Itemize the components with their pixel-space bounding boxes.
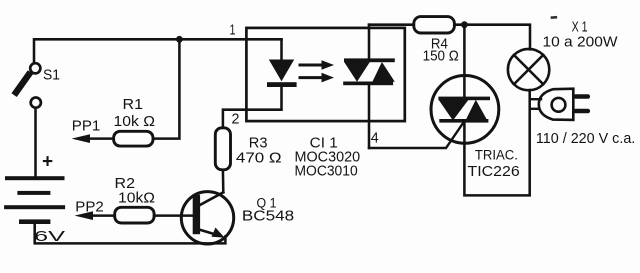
svg-text:MOC3010: MOC3010 bbox=[295, 163, 358, 179]
lamp X1 bbox=[508, 49, 549, 90]
node junction dot at triac MT2 bbox=[461, 21, 468, 28]
light arrows bbox=[300, 60, 334, 82]
wire: triac MT1 to plug return bbox=[464, 90, 529, 195]
wire: top rail from switch to LED anode bbox=[34, 39, 282, 63]
wire + arrow PP1 bbox=[72, 134, 114, 143]
svg-text:10kΩ: 10kΩ bbox=[118, 191, 155, 207]
wire: switch to battery bbox=[34, 108, 37, 176]
wire: pin2 of opto to R3 bbox=[223, 87, 282, 128]
svg-text:2: 2 bbox=[232, 111, 240, 127]
wire: junction down to triac bbox=[463, 25, 466, 97]
wire: battery to bottom rail and to Q1 emitter bbox=[35, 224, 226, 243]
opto-triac inside optocoupler bbox=[343, 25, 395, 148]
svg-text:R1: R1 bbox=[123, 97, 144, 113]
wire: R3 to Q1 collector bbox=[222, 170, 225, 193]
wire: R2 to Q1 base bbox=[154, 214, 193, 217]
svg-text:10 a 200W: 10 a 200W bbox=[543, 35, 618, 51]
svg-text:TIC226: TIC226 bbox=[468, 164, 520, 180]
optocoupler CI1 box bbox=[246, 28, 404, 121]
svg-text:+: + bbox=[42, 152, 53, 173]
wire: junction down to R1 bbox=[153, 39, 179, 138]
switch S1 bbox=[16, 63, 41, 107]
svg-text:BC548: BC548 bbox=[242, 209, 294, 225]
resistor R2 bbox=[115, 207, 154, 223]
svg-text:TRIAC.: TRIAC. bbox=[475, 147, 518, 162]
svg-text:150 Ω: 150 Ω bbox=[423, 49, 459, 65]
svg-text:S1: S1 bbox=[43, 68, 60, 84]
svg-text:PP1: PP1 bbox=[72, 118, 101, 134]
svg-text:PP2: PP2 bbox=[75, 199, 103, 215]
resistor R3 bbox=[215, 128, 230, 170]
scan speck bbox=[551, 16, 558, 19]
node junction dot on top rail bbox=[176, 36, 183, 43]
plug 110/220 bbox=[530, 89, 590, 120]
svg-text:X 1: X 1 bbox=[572, 20, 588, 36]
battery B1 6V bbox=[4, 176, 65, 224]
transistor Q1 BC548 bbox=[181, 192, 233, 244]
svg-text:110 / 220 V c.a.: 110 / 220 V c.a. bbox=[536, 131, 635, 147]
svg-text:R3: R3 bbox=[249, 135, 268, 151]
svg-text:10k Ω: 10k Ω bbox=[114, 114, 156, 130]
svg-text:6V: 6V bbox=[34, 228, 65, 245]
svg-text:1: 1 bbox=[230, 23, 236, 39]
wire: opto pin4 to triac gate bbox=[369, 122, 464, 148]
svg-text:4: 4 bbox=[371, 131, 379, 147]
wire: R4 to lamp corner bbox=[454, 25, 530, 50]
LED inside optocoupler bbox=[267, 39, 297, 87]
triac TIC226 bbox=[431, 76, 499, 144]
resistor R4 bbox=[414, 17, 455, 33]
wire: opto MT2 to R4 bbox=[369, 23, 414, 26]
wire + arrow PP2 bbox=[75, 211, 115, 220]
resistor R1 bbox=[114, 131, 153, 146]
svg-text:470 Ω: 470 Ω bbox=[236, 151, 282, 167]
